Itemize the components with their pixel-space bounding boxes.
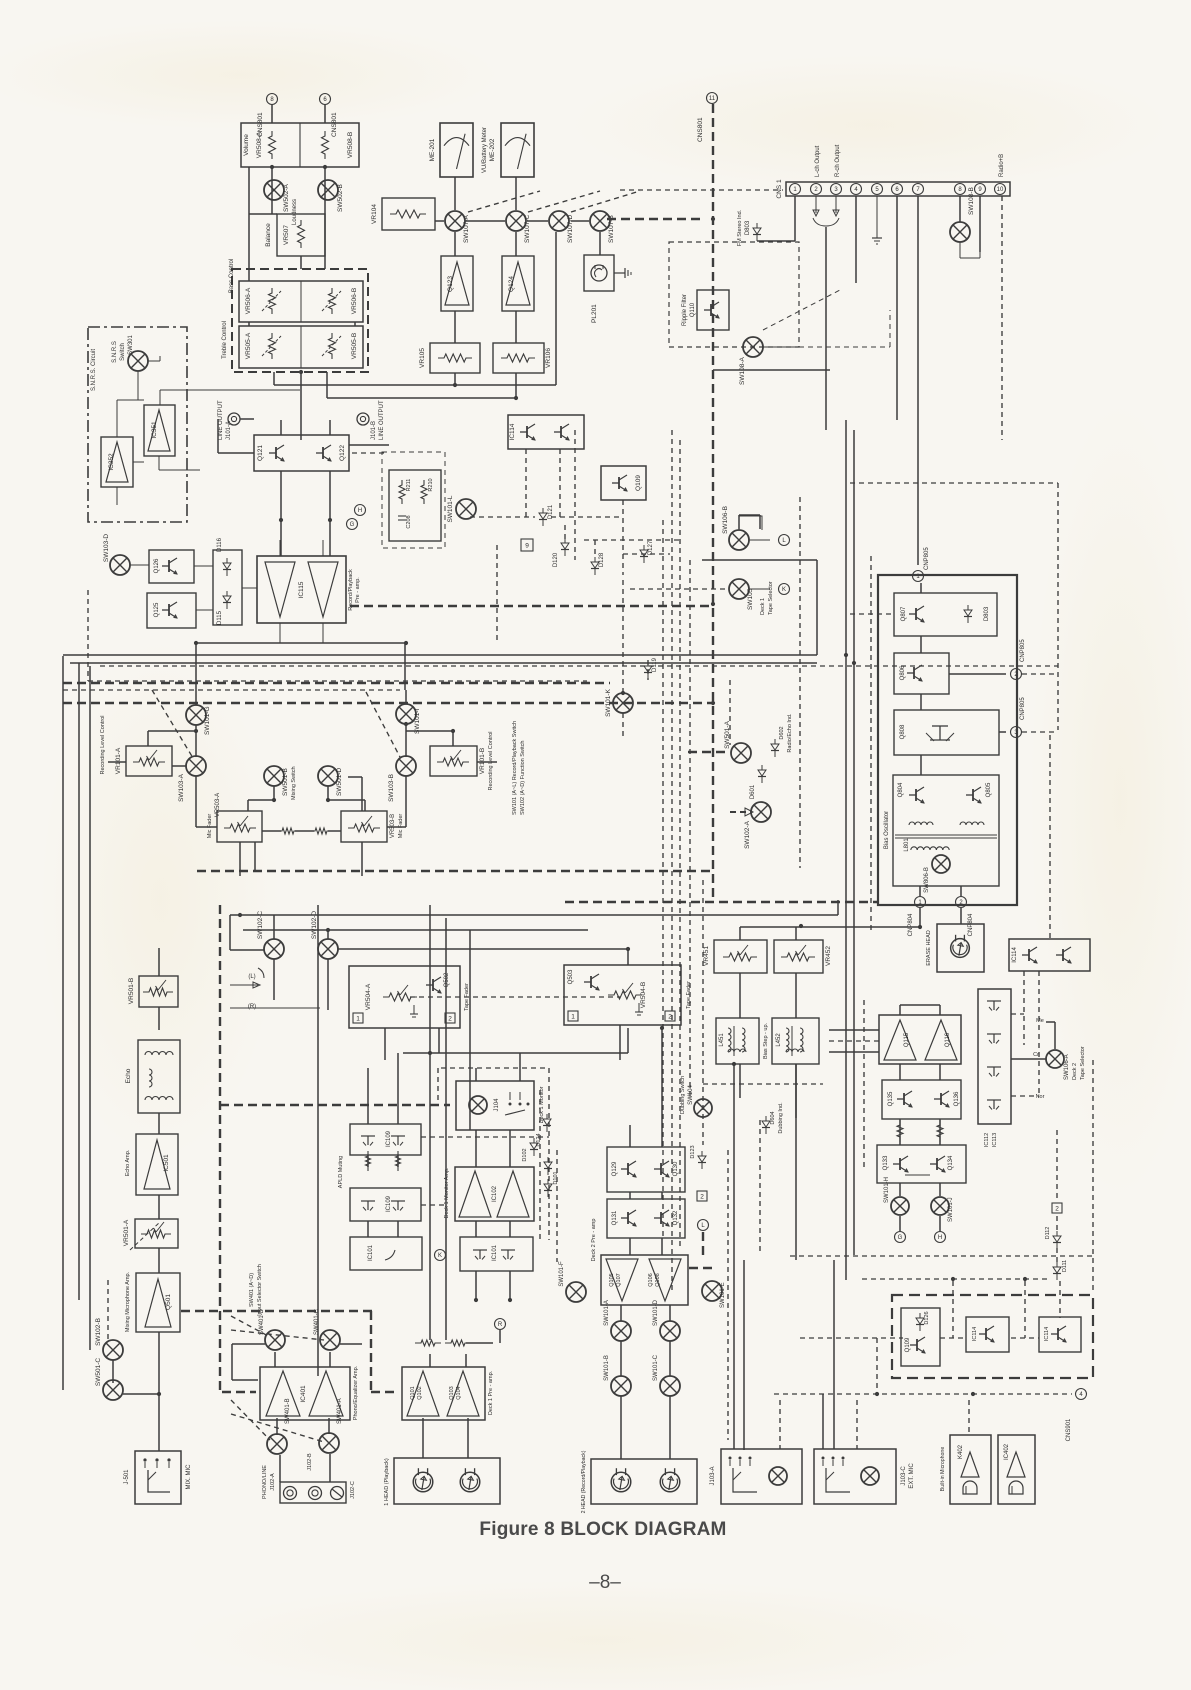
wire dashed	[1092, 1060, 1094, 1290]
svg-text:Q106: Q106	[648, 1273, 654, 1286]
wire	[70, 662, 817, 664]
wire	[629, 1238, 631, 1255]
wire	[845, 420, 847, 1280]
svg-text:VR504-A: VR504-A	[365, 983, 372, 1010]
resistor rr2	[445, 1340, 471, 1346]
wire dashed	[779, 1400, 781, 1449]
diode D120	[553, 538, 569, 567]
wire	[158, 1007, 160, 1030]
wire	[454, 177, 456, 210]
svg-text:SW401-A: SW401-A	[337, 1398, 343, 1424]
wire	[939, 1005, 941, 1015]
wire dashed	[584, 539, 680, 541]
mixing mic amp Q501	[125, 1271, 180, 1332]
wire	[329, 1352, 331, 1367]
svg-text:Pre - amp.: Pre - amp.	[355, 577, 361, 603]
svg-text:Built-in Microphone: Built-in Microphone	[940, 1447, 946, 1492]
svg-text:ME-201: ME-201	[429, 138, 436, 161]
amp IC401	[260, 1365, 359, 1420]
label R-ch output	[835, 144, 841, 177]
wire	[454, 232, 456, 256]
wire	[364, 800, 366, 811]
diode D128	[591, 552, 605, 575]
diode D127	[640, 540, 654, 563]
wire	[939, 1119, 941, 1145]
svg-text:10: 10	[997, 187, 1004, 193]
svg-text:Loudness: Loudness	[292, 199, 298, 225]
wire	[499, 1330, 501, 1343]
mixer SW101-E	[702, 1281, 726, 1308]
wire	[519, 1053, 521, 1081]
wire	[438, 1028, 440, 1053]
line output J101-B	[357, 400, 385, 440]
svg-text:Mic Fader: Mic Fader	[398, 814, 404, 839]
svg-text:Q808: Q808	[900, 724, 906, 739]
wire	[825, 227, 827, 430]
node L	[779, 535, 790, 546]
bass control VR506	[229, 259, 363, 322]
mixer SW102-A	[730, 802, 771, 849]
svg-text:J101-A: J101-A	[226, 421, 232, 440]
mixer SW101-B	[604, 1355, 631, 1396]
wire dashed	[528, 191, 600, 212]
wire	[195, 725, 197, 757]
svg-text:Q136: Q136	[954, 1091, 960, 1106]
wire dashed	[623, 553, 670, 555]
svg-text:D101: D101	[553, 1171, 559, 1184]
svg-text:IC102: IC102	[492, 1185, 498, 1202]
mixer SW107-A	[445, 211, 470, 243]
wire	[620, 1396, 622, 1459]
tape fader VR504-A	[349, 966, 470, 1028]
svg-text:Record/Playback: Record/Playback	[348, 569, 354, 611]
svg-text:SW101-B: SW101-B	[604, 1355, 610, 1381]
svg-text:Q101: Q101	[410, 1386, 416, 1399]
mixer SW106-B	[722, 506, 770, 550]
svg-text:D102: D102	[522, 1148, 528, 1161]
svg-text:Mixing Switch: Mixing Switch	[291, 766, 297, 800]
wire	[919, 908, 921, 927]
wire dashed	[571, 191, 640, 212]
wire dashed	[662, 520, 664, 1240]
svg-text:CNS 1: CNS 1	[776, 179, 783, 199]
diode D604	[762, 1102, 784, 1134]
connector CNS801 pin 8	[257, 94, 278, 138]
wire	[280, 471, 282, 556]
svg-text:SW102 (A~D) Function Switch: SW102 (A~D) Function Switch	[520, 741, 526, 815]
resistor link2	[309, 828, 333, 834]
wire	[158, 948, 160, 976]
wire dashed	[1022, 673, 1058, 675]
svg-text:Q129: Q129	[612, 1161, 618, 1176]
diode D119	[644, 657, 658, 679]
wire	[477, 761, 497, 763]
svg-text:SW101-L: SW101-L	[447, 495, 454, 522]
wire	[429, 1354, 431, 1367]
wire	[404, 643, 406, 690]
svg-text:CNP805: CNP805	[924, 547, 930, 570]
wire	[406, 730, 453, 732]
connector CNS801 pin 11	[697, 93, 718, 143]
wire	[949, 673, 1006, 675]
svg-text:IC101: IC101	[368, 1244, 374, 1261]
wire	[702, 559, 817, 561]
wire	[429, 905, 431, 1340]
ic IC109 lower	[350, 1188, 421, 1221]
svg-text:VR504-B: VR504-B	[640, 982, 647, 1008]
wire dashed	[1038, 971, 1040, 1096]
wire	[795, 1064, 797, 1118]
svg-text:CNS901: CNS901	[1066, 1418, 1072, 1441]
svg-text:SW101-F: SW101-F	[559, 1261, 565, 1287]
label apld muting	[338, 1156, 344, 1188]
diode D112	[1045, 1227, 1061, 1249]
svg-text:J102-C: J102-C	[350, 1481, 356, 1499]
vr VR501-A	[123, 1219, 178, 1250]
volume control VR508	[241, 123, 359, 167]
svg-text:Dubbing Switch: Dubbing Switch	[680, 1076, 686, 1114]
wire	[327, 930, 329, 939]
wire	[435, 220, 444, 222]
wire	[620, 1305, 622, 1321]
node H	[355, 505, 366, 516]
mixer SW103-A	[178, 756, 206, 802]
wire	[247, 800, 249, 811]
wire	[661, 1238, 663, 1255]
wire	[280, 420, 282, 435]
diode D123	[690, 1145, 706, 1169]
meter ME-202	[482, 123, 534, 177]
svg-text:IC352: IC352	[108, 453, 115, 471]
wire	[555, 232, 557, 385]
wire	[328, 1418, 330, 1434]
wire dashed	[548, 1068, 550, 1240]
wire	[218, 452, 254, 454]
svg-text:ERASE HEAD: ERASE HEAD	[926, 930, 932, 965]
node G2	[895, 1232, 906, 1243]
svg-text:VR452: VR452	[825, 946, 832, 966]
svg-text:SW301: SW301	[128, 335, 134, 355]
svg-text:K: K	[438, 1253, 442, 1259]
svg-text:SW105: SW105	[747, 588, 754, 610]
wire	[917, 196, 919, 565]
wire	[855, 196, 857, 283]
wire	[740, 926, 920, 928]
svg-text:Q132: Q132	[673, 1210, 679, 1225]
svg-text:Q807: Q807	[901, 606, 907, 621]
wire dashed	[671, 430, 673, 1290]
svg-text:Deck 1 Monitor Amp.: Deck 1 Monitor Amp.	[444, 1167, 450, 1219]
svg-text:Treble Control: Treble Control	[222, 321, 228, 359]
resistor link1	[276, 828, 300, 834]
wire	[571, 220, 589, 222]
wire	[1011, 1058, 1046, 1060]
wire	[273, 786, 275, 800]
svg-text:IC101: IC101	[492, 1244, 498, 1261]
label L-ch output	[815, 145, 821, 177]
svg-text:FM Stereo Ind.: FM Stereo Ind.	[737, 209, 743, 246]
wire dashed	[88, 680, 587, 682]
svg-text:D111: D111	[1062, 1260, 1068, 1272]
wire heavy dashed	[219, 905, 221, 1392]
svg-text:SW107-D: SW107-D	[567, 215, 574, 243]
wire dashed	[1057, 483, 1059, 730]
wire	[367, 1221, 369, 1237]
svg-text:R211: R211	[406, 479, 412, 492]
ic IC101 switch	[350, 1237, 422, 1270]
svg-text:SW401-B: SW401-B	[285, 1398, 291, 1424]
svg-text:Q805: Q805	[986, 782, 992, 797]
mixer SW101-A	[604, 1300, 631, 1341]
svg-text:D601: D601	[750, 784, 756, 799]
svg-text:SW108-B: SW108-B	[968, 187, 975, 215]
svg-text:Dubbing Ind.: Dubbing Ind.	[778, 1102, 784, 1134]
frame output block	[892, 1295, 1093, 1378]
wire	[669, 1341, 671, 1376]
svg-text:Q105: Q105	[609, 1273, 615, 1286]
ground near PL201	[614, 268, 631, 278]
connector CNP804 pin2	[956, 897, 975, 937]
svg-text:Q116: Q116	[945, 1032, 951, 1047]
svg-text:K: K	[782, 587, 786, 593]
mixer SW105	[729, 579, 774, 615]
wire	[816, 560, 818, 655]
svg-text:Q109: Q109	[635, 475, 642, 491]
wire dashed	[470, 516, 535, 518]
wire	[795, 927, 797, 940]
svg-text:Q124: Q124	[508, 276, 515, 292]
svg-text:IC501: IC501	[163, 1154, 170, 1172]
connector CNP805 pin3	[1011, 697, 1027, 738]
wire	[158, 1248, 160, 1273]
connector CNS901 pin4	[1066, 1389, 1087, 1442]
svg-text:Mic Fader: Mic Fader	[207, 814, 213, 839]
wire	[248, 167, 250, 281]
svg-text:SW108-A: SW108-A	[739, 357, 746, 385]
svg-text:SW102-A: SW102-A	[744, 820, 751, 848]
svg-text:MIX. MIC: MIX. MIC	[186, 1464, 192, 1490]
balance control VR507	[265, 214, 325, 256]
mixer SW101-F	[559, 1261, 586, 1302]
wire	[469, 930, 471, 1130]
vr VR101-B	[430, 731, 494, 790]
svg-text:CNP805: CNP805	[1020, 639, 1026, 662]
amp IC352	[101, 437, 133, 487]
wire	[739, 973, 741, 1018]
wire heavy dashed	[688, 751, 730, 753]
wire	[620, 1341, 622, 1376]
transistors Q129 Q130	[607, 1147, 685, 1192]
wire dashed	[564, 525, 566, 540]
svg-text:Q103: Q103	[449, 1386, 455, 1399]
svg-text:CNP805: CNP805	[1020, 697, 1026, 720]
connector CNS801 pin 6	[320, 94, 339, 138]
wire	[230, 914, 838, 916]
square 2a	[697, 1191, 707, 1201]
svg-text:11: 11	[709, 96, 716, 102]
svg-text:Balance: Balance	[265, 223, 272, 247]
mixer SW101-J	[931, 1197, 954, 1222]
mixer SW101-C	[653, 1354, 680, 1396]
wire	[262, 830, 281, 832]
svg-text:SW101-D: SW101-D	[653, 1299, 659, 1326]
svg-text:Q126: Q126	[154, 558, 160, 573]
svg-text:1 HEAD (Playback): 1 HEAD (Playback)	[384, 1458, 390, 1506]
svg-text:L801: L801	[904, 838, 910, 852]
wire	[240, 418, 254, 420]
wire	[733, 1064, 735, 1449]
svg-text:D602: D602	[779, 726, 785, 739]
svg-text:Deck 1 Pre - amp.: Deck 1 Pre - amp.	[488, 1370, 494, 1415]
wire heavy dashed	[197, 870, 713, 872]
wire	[739, 927, 741, 940]
diodes D101	[544, 1157, 559, 1197]
wire dashed	[774, 1393, 1072, 1395]
arrow pin2	[813, 196, 819, 216]
wire dashed	[559, 449, 561, 517]
node H2	[935, 1232, 946, 1243]
wire	[422, 1418, 424, 1458]
resistor r1	[366, 1151, 371, 1171]
wire dashed	[574, 430, 576, 560]
mixer SW107-C	[506, 211, 531, 243]
bias transformer box	[893, 775, 999, 893]
wire	[239, 842, 241, 876]
svg-text:VR505-A: VR505-A	[245, 332, 252, 359]
wire	[248, 799, 274, 801]
wire heavy dashed	[689, 1267, 714, 1269]
resistor r2	[396, 1151, 401, 1171]
svg-text:VR105: VR105	[419, 348, 426, 368]
wire	[465, 1354, 467, 1367]
svg-text:Nor: Nor	[1036, 1094, 1045, 1100]
mixer SW104 dubbing	[680, 1076, 712, 1117]
mixer SW101-I	[396, 704, 421, 734]
frame bias oscillator	[878, 575, 1017, 905]
svg-text:VR508-A: VR508-A	[256, 131, 263, 158]
wire heavy dashed	[222, 1391, 256, 1393]
svg-text:Phono/Equalizer Amp.: Phono/Equalizer Amp.	[353, 1365, 359, 1420]
svg-text:Q102: Q102	[417, 1386, 423, 1399]
wire	[900, 1004, 940, 1006]
svg-text:Input Selector Switch: Input Selector Switch	[257, 1264, 263, 1316]
jack J501 mix mic	[124, 1451, 192, 1504]
mixer SW101-H	[884, 1177, 909, 1215]
svg-text:SW104: SW104	[688, 1085, 694, 1105]
wire dashed	[622, 713, 624, 740]
wire	[397, 1053, 399, 1124]
wire heavy dashed	[565, 901, 878, 903]
svg-text:Q806: Q806	[900, 665, 906, 680]
svg-text:H: H	[938, 1235, 942, 1241]
jack J103-A	[710, 1449, 802, 1504]
wire junction dots	[157, 165, 1027, 1396]
wire dashed	[799, 497, 801, 868]
mixer SW501-B	[264, 766, 297, 800]
svg-text:SW107-A: SW107-A	[463, 215, 470, 243]
mixer SW501-C	[95, 1358, 123, 1400]
wire	[919, 886, 921, 896]
wire	[627, 1028, 629, 1053]
svg-text:D119: D119	[652, 657, 658, 672]
mixer SW107-B	[590, 211, 615, 243]
mixer SW106-A	[1033, 1018, 1086, 1100]
diode D803 FM stereo ind	[737, 209, 761, 246]
phono line jacks	[262, 1453, 356, 1503]
svg-text:SW101-H: SW101-H	[884, 1177, 890, 1203]
jack J103-C ext mic	[814, 1449, 915, 1504]
wire	[405, 776, 407, 827]
wire	[249, 213, 277, 215]
svg-text:2: 2	[700, 1193, 704, 1200]
svg-text:SW101-C: SW101-C	[653, 1354, 659, 1381]
svg-text:L: L	[782, 538, 786, 544]
svg-text:SW101-I: SW101-I	[414, 709, 421, 734]
vr VR452	[774, 940, 832, 973]
wire dashed	[689, 560, 691, 1100]
svg-text:1: 1	[571, 1013, 575, 1020]
svg-text:Figure 8 BLOCK DIAGRAM: Figure 8 BLOCK DIAGRAM	[479, 1519, 726, 1540]
wire	[515, 373, 517, 398]
wire heavy dashed	[712, 104, 714, 902]
svg-text:VR104: VR104	[371, 204, 378, 224]
wire	[329, 471, 331, 556]
svg-text:Echo: Echo	[125, 1068, 132, 1083]
wire	[920, 583, 922, 593]
wire	[405, 724, 407, 757]
svg-text:VR506-A: VR506-A	[245, 287, 252, 314]
wire	[445, 918, 447, 1340]
wire	[669, 1305, 671, 1321]
svg-text:Q135: Q135	[888, 1091, 894, 1106]
wire	[329, 1454, 331, 1482]
wire dashed	[437, 1068, 439, 1100]
svg-text:Q133: Q133	[883, 1155, 889, 1170]
svg-text:Recording Level Control: Recording Level Control	[100, 715, 106, 774]
wire dashed	[800, 1337, 903, 1339]
wire	[300, 256, 302, 269]
wire	[354, 322, 356, 326]
svg-text:CNP804: CNP804	[908, 913, 914, 936]
wire	[195, 690, 197, 705]
svg-text:R: R	[498, 1322, 503, 1328]
wire heavy dashed	[607, 218, 705, 220]
vr VR503-A mic fader	[207, 793, 262, 842]
ic IC114 right	[1009, 939, 1090, 971]
svg-text:SW102-B: SW102-B	[95, 1318, 102, 1346]
svg-text:D120: D120	[553, 552, 559, 567]
svg-text:SW501-D: SW501-D	[336, 768, 343, 796]
wire	[78, 663, 80, 1300]
amp Q123	[441, 256, 473, 311]
vr VR503-B mic fader	[341, 811, 404, 842]
wire dashed	[1056, 1248, 1058, 1262]
transistors Q135 Q136	[882, 1080, 961, 1119]
mixer SW401-A	[319, 1398, 343, 1453]
mixer SW108-A	[739, 337, 763, 385]
wire	[920, 694, 922, 710]
vr VR106	[493, 343, 552, 373]
svg-text:L451: L451	[719, 1033, 725, 1047]
wire	[229, 915, 231, 950]
ic IC402	[998, 1435, 1035, 1504]
wire dashed	[1056, 1216, 1058, 1232]
wire dashed	[231, 1414, 324, 1442]
wire	[475, 1130, 477, 1167]
svg-text:D116: D116	[217, 537, 223, 552]
svg-text:IC402: IC402	[1004, 1443, 1010, 1460]
svg-text:IC109: IC109	[386, 1195, 392, 1212]
